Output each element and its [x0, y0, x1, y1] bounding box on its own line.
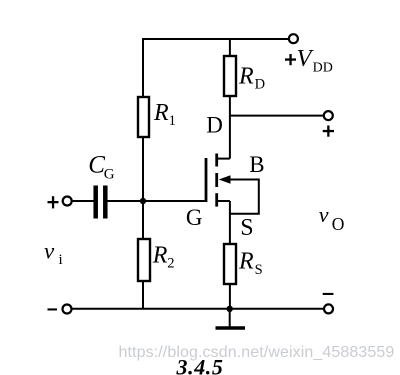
- svg-text:R: R: [238, 249, 254, 275]
- resistor R1: [138, 97, 149, 137]
- wire input to cap: [72, 200, 94, 202]
- terminal input bottom circle: [63, 305, 72, 314]
- node gate junction dot: [140, 198, 146, 204]
- transistor Q1 gate bar: [205, 158, 208, 202]
- resistor R2: [138, 239, 150, 281]
- svg-text:S: S: [240, 215, 253, 241]
- svg-text:1: 1: [169, 113, 176, 129]
- wire drain lead: [217, 158, 230, 160]
- wire left vertical upper: [142, 38, 144, 97]
- svg-text:R: R: [153, 100, 169, 126]
- label + input sign: [48, 201, 59, 203]
- svg-text:https://blog.csdn.net/weixin_4: https://blog.csdn.net/weixin_45883559: [119, 344, 395, 361]
- svg-text:i: i: [59, 252, 63, 268]
- wire output top: [230, 115, 324, 117]
- svg-text:v: v: [319, 202, 329, 227]
- wire gate lead: [143, 200, 205, 202]
- wire top rail: [142, 38, 289, 40]
- svg-text:G: G: [104, 167, 115, 183]
- capacitor CG plate left: [93, 186, 98, 219]
- svg-text:C: C: [88, 151, 105, 178]
- transistor Q1 channel segment top: [215, 154, 218, 167]
- transistor Q1 channel segment bottom: [215, 193, 218, 206]
- wire left vertical lower: [142, 281, 144, 309]
- label minus output sign: [323, 293, 334, 295]
- label minus input sign: [48, 308, 58, 310]
- svg-text:R: R: [152, 242, 168, 268]
- node source junction dot: [227, 306, 233, 312]
- wire drain vertical: [229, 96, 231, 159]
- terminal output + circle: [324, 111, 333, 120]
- wire body B loop: [229, 180, 259, 214]
- svg-text:O: O: [332, 214, 345, 234]
- label + output sign: [323, 130, 334, 132]
- capacitor CG plate right: [103, 186, 108, 219]
- svg-text:S: S: [255, 262, 263, 278]
- svg-text:3.4.5: 3.4.5: [176, 355, 224, 375]
- label +VDD plus sign: [285, 58, 296, 60]
- wire right vertical top: [229, 38, 231, 56]
- ground stem: [229, 309, 231, 327]
- wire cap to node: [108, 200, 144, 202]
- wire source vertical: [229, 201, 231, 244]
- wire bottom rail: [72, 308, 324, 310]
- body arrow of Q1: [219, 175, 231, 184]
- transistor Q1 channel segment middle: [215, 173, 218, 187]
- resistor RS: [224, 244, 236, 284]
- svg-text:D: D: [206, 112, 223, 137]
- wire source lead: [217, 200, 230, 202]
- svg-text:2: 2: [167, 255, 174, 271]
- terminal output bottom circle: [324, 304, 333, 313]
- wire RS to rail: [229, 284, 231, 309]
- svg-text:DD: DD: [313, 60, 333, 75]
- terminal +VDD circle: [289, 34, 298, 43]
- svg-text:B: B: [249, 152, 264, 177]
- svg-text:R: R: [238, 63, 254, 89]
- resistor RD: [224, 56, 236, 96]
- svg-text:G: G: [186, 205, 203, 230]
- ground bar: [216, 326, 246, 330]
- wire left vertical middle: [142, 137, 144, 239]
- terminal input circle: [63, 197, 72, 206]
- svg-text:D: D: [255, 77, 265, 93]
- svg-text:v: v: [44, 238, 55, 263]
